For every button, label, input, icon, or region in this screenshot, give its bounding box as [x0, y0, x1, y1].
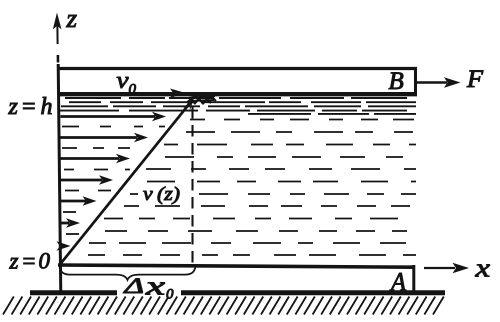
svg-text:F: F [466, 66, 484, 93]
velocity profile arrow 3 [61, 154, 131, 164]
svg-text:x: x [144, 272, 165, 301]
svg-text:v (z): v (z) [143, 184, 180, 205]
label v(z) [138, 184, 184, 205]
label z (axis) [65, 4, 77, 33]
velocity profile arrow 7 [57, 241, 71, 251]
svg-text:z: z [9, 249, 19, 274]
plate A top edge (z=0 line) [58, 265, 415, 267]
velocity profile arrow 5 [61, 196, 97, 206]
velocity profile arrow 4 [61, 175, 114, 185]
plate B bottom edge (z=h surface line) [58, 92, 417, 96]
plate B top edge [58, 67, 417, 70]
svg-text:Δ: Δ [123, 273, 144, 298]
label x [474, 254, 490, 283]
svg-text:B: B [389, 68, 404, 95]
label v0 [117, 68, 137, 98]
plate A right edge [412, 265, 415, 291]
svg-text:=: = [21, 94, 37, 120]
label Δx0 [123, 272, 174, 303]
x axis arrow [424, 263, 469, 273]
plate A (bottom plate interior) [59, 267, 413, 290]
svg-text:v: v [117, 68, 129, 94]
svg-text:x: x [474, 254, 490, 283]
svg-text:0: 0 [166, 287, 174, 303]
label F [466, 66, 484, 93]
ground hatching [3, 297, 444, 315]
velocity arrow v0 at top surface [62, 89, 187, 98]
velocity profile arrow 1 [61, 112, 167, 122]
svg-text:0: 0 [39, 249, 51, 274]
force arrow F [417, 77, 461, 87]
ground line left segment [30, 290, 117, 295]
plate B (top plate interior) [59, 70, 414, 92]
svg-text:z: z [8, 94, 19, 120]
svg-text:=: = [21, 249, 37, 274]
plate B right edge [414, 67, 417, 96]
velocity profile arrow 6 [61, 218, 81, 228]
label B [389, 68, 404, 95]
label z = h [8, 94, 53, 120]
scribble smudge at top of profile [187, 90, 216, 104]
ground line right segment [181, 290, 445, 295]
label A [389, 268, 406, 297]
svg-text:h: h [41, 94, 53, 120]
velocity profile arrow 2 [61, 133, 149, 143]
label z = 0 [9, 249, 51, 274]
fluid dashed-line texture [60, 98, 416, 255]
brace for Δx0 span [60, 267, 196, 280]
svg-text:z: z [65, 4, 77, 33]
z axis shaft with arrowhead [53, 13, 62, 296]
dashed vertical reference line at Δx0 [191, 107, 193, 263]
svg-text:0: 0 [129, 82, 137, 98]
velocity profile diagonal line [60, 97, 195, 265]
